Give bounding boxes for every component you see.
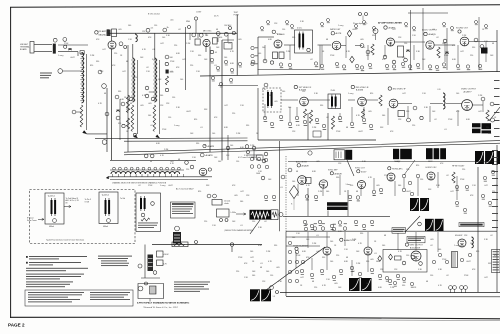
connector speaker jack pair 2	[460, 286, 468, 293]
svg-text:CONV: CONV	[196, 12, 202, 14]
svg-text:.005: .005	[368, 111, 372, 113]
resistor R63	[379, 95, 382, 106]
resistor R52	[437, 47, 440, 58]
wire x111 vertical	[111, 37, 113, 42]
terminal af a	[383, 55, 387, 59]
wire sound drop 7	[444, 42, 446, 62]
wire volume stem	[375, 34, 377, 41]
tube V11 3rd video if	[389, 99, 398, 108]
capacitor C30	[207, 194, 211, 198]
wire sound link2	[318, 44, 332, 46]
tube label circle V1	[95, 30, 107, 34]
svg-text:25-80: 25-80	[331, 90, 336, 92]
svg-text:.01: .01	[228, 43, 231, 45]
terminal ratio b	[366, 50, 370, 54]
svg-text:1 meg: 1 meg	[160, 185, 165, 187]
capacitor C50	[406, 50, 410, 52]
svg-text:2.2M: 2.2M	[186, 43, 191, 45]
note alt tuner caption	[138, 223, 158, 229]
coil L1 top box	[80, 51, 84, 54]
svg-text:.02: .02	[490, 235, 493, 237]
wire faint lower right	[250, 319, 500, 320]
svg-text:68: 68	[216, 29, 218, 31]
inductor L30 right	[472, 237, 474, 248]
terminal agc a	[281, 175, 285, 179]
wire ao link	[435, 44, 456, 46]
boundary ai resistance label	[459, 223, 484, 227]
component yoke photo block B	[426, 148, 446, 159]
testpoint TP3	[378, 256, 382, 262]
svg-text:A 6CZ5GW: A 6CZ5GW	[410, 246, 420, 249]
wire vif drop 2	[296, 107, 298, 116]
terminal row controls top of big box	[304, 223, 347, 231]
svg-text:270K: 270K	[296, 255, 301, 257]
svg-text:OSC ADJ: OSC ADJ	[224, 24, 231, 27]
note paragraph 1	[29, 256, 87, 259]
svg-text:VERT OUTPUT: VERT OUTPUT	[410, 245, 424, 247]
terminal chain b	[153, 271, 157, 275]
svg-text:.005: .005	[274, 101, 278, 103]
wire mixer drop 0	[189, 33, 191, 40]
svg-text:270K: 270K	[64, 43, 69, 45]
wire bigbox top	[286, 230, 497, 232]
terminal row sound section bypass capacitors	[279, 62, 482, 71]
wire bigbox drop 3	[367, 232, 369, 247]
svg-text:.01: .01	[268, 95, 271, 97]
svg-text:100: 100	[266, 271, 269, 273]
capacitor C1	[53, 38, 57, 42]
svg-text:100: 100	[224, 57, 227, 59]
terminal sound c	[270, 61, 273, 64]
graph response curve C2 edge	[497, 151, 500, 164]
svg-text:4.5: 4.5	[151, 28, 154, 30]
terminal agc b	[288, 168, 292, 172]
inductor L20 peaking	[443, 93, 445, 109]
tube heater pad	[102, 84, 107, 89]
wire mixer drop 2	[205, 33, 207, 36]
svg-text:330: 330	[366, 261, 369, 263]
tube V21 audio out right	[458, 239, 466, 247]
note paragraph 4	[26, 274, 84, 280]
svg-text:.047: .047	[160, 43, 164, 45]
wire so link	[469, 41, 497, 43]
svg-text:1.5mg: 1.5mg	[318, 184, 323, 186]
svg-text:PAGE 2: PAGE 2	[8, 323, 25, 328]
svg-text:A 6AT8: A 6AT8	[206, 154, 214, 157]
wire vif drop 3	[339, 113, 341, 117]
svg-text:To Vid: To Vid	[120, 198, 125, 200]
svg-text:560: 560	[258, 53, 261, 55]
terminal pointer origin	[491, 118, 495, 122]
svg-text:2.2M: 2.2M	[390, 287, 395, 289]
inductor L12 choke box	[212, 200, 222, 206]
svg-text:100: 100	[366, 283, 369, 285]
wire c35 down	[176, 244, 178, 245]
terminal osc pad2	[224, 32, 228, 36]
tube V17 horiz osc	[427, 172, 435, 180]
testpoint TP5 large diamond	[289, 186, 298, 199]
capacitor trimmer box	[224, 43, 232, 50]
svg-text:560: 560	[128, 25, 131, 27]
capacitor C17 blob	[166, 70, 169, 74]
tube V18 noise blanker	[323, 247, 331, 255]
inductor L3 rf coil ladder upper	[131, 58, 135, 102]
svg-text:SYNC SEP: SYNC SEP	[328, 169, 338, 171]
svg-text:A 6AU6: A 6AU6	[277, 33, 285, 36]
tube label circle V6	[384, 26, 387, 29]
svg-text:560: 560	[398, 185, 401, 187]
wire ratio link	[341, 45, 346, 47]
testpoint TP1 diamond	[347, 30, 351, 36]
boundary alternate tuner box	[136, 193, 161, 232]
svg-text:A 6AU8: A 6AU8	[302, 164, 310, 167]
capacitor C16	[165, 62, 168, 65]
note alternate ant text	[40, 73, 52, 79]
svg-text:330: 330	[196, 143, 199, 145]
svg-text:.005: .005	[140, 105, 144, 107]
terminal cluster big box left	[288, 241, 304, 282]
wire vif drop 0	[264, 104, 266, 118]
testpoint TP5 stem	[293, 199, 295, 211]
svg-text:A 12BY7: A 12BY7	[464, 90, 473, 93]
wire bigbox drop 0	[307, 232, 309, 248]
svg-text:560: 560	[282, 91, 285, 93]
svg-text:820: 820	[198, 191, 201, 193]
wire osc drop x210	[209, 47, 211, 153]
svg-text:220: 220	[462, 169, 465, 171]
terminal deflection tap	[230, 243, 233, 246]
wire sync v x308	[307, 188, 309, 216]
svg-text:.047: .047	[122, 71, 126, 73]
wire bottom bus y248	[152, 244, 262, 246]
svg-text:VIDEO OUTPUT: VIDEO OUTPUT	[461, 89, 477, 91]
terminal V1 plate	[124, 46, 127, 49]
tube label circle V18	[295, 247, 298, 250]
terminal osc pad3	[232, 31, 235, 34]
wire vif bus y140	[258, 139, 376, 141]
wire sound return bottom	[258, 69, 321, 71]
svg-text:100: 100	[262, 47, 265, 49]
terminal x248 b	[246, 150, 249, 153]
svg-text:.02: .02	[434, 119, 437, 121]
svg-text:AC Tuned Coil 6BQ7: AC Tuned Coil 6BQ7	[176, 187, 194, 190]
wire topright vert x479	[478, 17, 480, 70]
testpoint TP2 diamond	[350, 56, 354, 62]
terminal coil tap L4	[151, 97, 155, 101]
tube label circle V14	[330, 172, 333, 175]
wire pointer to crt	[489, 107, 500, 121]
terminal ratio a	[360, 44, 364, 48]
svg-text:4.5mc: 4.5mc	[297, 28, 302, 30]
svg-text:100: 100	[288, 107, 291, 109]
svg-text:68: 68	[312, 281, 314, 283]
border left edge	[10, 7, 12, 318]
wire L3 core	[136, 60, 138, 134]
terminal vif r c	[420, 116, 423, 119]
svg-text:560: 560	[218, 161, 221, 163]
terminal T2 bottom	[107, 219, 111, 223]
terminal sound b	[251, 60, 255, 64]
terminal l25 right	[279, 213, 283, 217]
tube label circle V4	[272, 30, 280, 35]
svg-text:.005: .005	[276, 267, 280, 269]
terminal column sound left edge	[251, 46, 258, 65]
terminal L1 tap	[72, 110, 76, 114]
wire sync drop 7	[417, 178, 419, 196]
terminal L4 mid tap2	[145, 94, 149, 98]
terminal vif r b	[413, 106, 417, 110]
svg-text:2.2M: 2.2M	[266, 251, 271, 253]
svg-text:330: 330	[336, 177, 339, 179]
wire vif drop 5	[363, 107, 365, 118]
svg-text:220: 220	[486, 127, 489, 129]
svg-text:.01: .01	[200, 127, 203, 129]
svg-text:.01: .01	[222, 151, 225, 153]
svg-text:BOARD: BOARD	[20, 48, 27, 51]
svg-text:150: 150	[420, 179, 423, 181]
wire topright vert x447	[446, 28, 448, 70]
svg-text:150: 150	[154, 25, 157, 27]
terminal selector out b	[190, 165, 194, 169]
svg-text:330: 330	[402, 285, 405, 287]
svg-text:.0047: .0047	[466, 261, 471, 263]
tube V20 vertical output	[411, 251, 421, 261]
capacitor C35 electrolytic body	[173, 232, 181, 244]
tube V16 horiz afc	[387, 173, 395, 181]
svg-text:220: 220	[412, 125, 415, 127]
svg-text:.01: .01	[260, 263, 263, 265]
svg-text:.047: .047	[484, 277, 488, 279]
terminal col d	[262, 159, 266, 163]
transformer T3 alt windings	[140, 196, 146, 211]
tube V14 sync separator	[319, 180, 327, 188]
svg-text:330: 330	[118, 91, 121, 93]
svg-text:SYNC OUT: SYNC OUT	[355, 167, 366, 169]
svg-text:AGC & Pin 1, 28: AGC & Pin 1, 28	[66, 199, 79, 202]
transformer T6 dashed	[263, 88, 281, 112]
svg-text:A 6BU8: A 6BU8	[335, 172, 343, 175]
svg-text:.005: .005	[376, 185, 380, 187]
svg-text:.047: .047	[460, 51, 464, 53]
transformer T8 vert output	[452, 252, 458, 268]
svg-text:SOUND OUT: SOUND OUT	[456, 28, 469, 30]
graph waveform block B	[425, 219, 444, 231]
note paragraph 5	[26, 281, 73, 287]
wire sound return right	[319, 45, 321, 70]
wire vo link	[473, 104, 484, 106]
svg-text:1 meg: 1 meg	[58, 55, 63, 57]
component yoke photo block A	[393, 149, 412, 159]
svg-text:270K: 270K	[444, 55, 449, 57]
table rows resistance check	[172, 206, 193, 214]
tube V15 sync output	[358, 181, 366, 189]
wire bus left join a	[95, 137, 248, 140]
svg-text:AUDIO OUTPUT: AUDIO OUTPUT	[422, 29, 438, 32]
terminal col e	[261, 176, 265, 180]
wire vif link1	[281, 99, 298, 101]
label column right margin upper	[494, 80, 500, 137]
svg-text:.02: .02	[178, 29, 181, 31]
resistor R20 alt	[141, 218, 150, 221]
svg-text:220: 220	[190, 65, 193, 67]
tube V9 1st video if	[300, 97, 309, 106]
terminal t6 top	[264, 83, 268, 87]
svg-text:.0047: .0047	[406, 191, 411, 193]
wire sound vertical x258	[257, 37, 259, 75]
wire sync drop 5	[394, 181, 396, 196]
svg-text:©Howard W. Sams & Co., Inc. 19: ©Howard W. Sams & Co., Inc. 1957	[143, 306, 179, 309]
svg-text:.01: .01	[170, 71, 173, 73]
terminal if link a	[115, 95, 119, 99]
wire L1 bottom drop	[87, 133, 107, 135]
wire vertical x279	[279, 141, 281, 231]
svg-text:.01: .01	[152, 49, 155, 51]
svg-text:MIX OSC: MIX OSC	[203, 30, 212, 32]
tube V4 sound if	[274, 40, 282, 48]
resistor R7 agc	[126, 95, 129, 113]
wire sound drop 2	[321, 45, 323, 64]
resistor R22 box	[172, 242, 188, 247]
svg-text:2.2M: 2.2M	[356, 263, 361, 265]
wire topright vert x423	[422, 8, 424, 70]
svg-text:100: 100	[180, 79, 183, 81]
svg-text:.01: .01	[444, 129, 447, 131]
wire meter pointer	[347, 160, 354, 176]
tube V5 ratio detector	[332, 41, 341, 50]
svg-text:.047: .047	[102, 49, 106, 51]
svg-text:.047: .047	[478, 111, 482, 113]
wire antenna lead top	[34, 43, 52, 45]
svg-text:.0047: .0047	[70, 57, 75, 59]
graph waveform block A	[410, 198, 429, 211]
wire sound drop 1	[289, 45, 291, 60]
svg-text:2.2M: 2.2M	[126, 109, 131, 111]
svg-text:.005: .005	[360, 39, 364, 41]
svg-text:560: 560	[240, 201, 243, 203]
terminal coil junction	[58, 69, 63, 74]
wire junction to coil	[63, 70, 83, 72]
terminal if link c	[116, 116, 120, 120]
terminal chain a	[138, 264, 142, 268]
svg-text:330: 330	[118, 123, 121, 125]
svg-text:RATIO DET: RATIO DET	[330, 28, 341, 31]
terminal rows big box center	[300, 266, 400, 285]
svg-text:2.2M: 2.2M	[312, 243, 317, 245]
svg-text:150: 150	[406, 255, 409, 257]
component video peak label box	[392, 228, 406, 234]
svg-text:45.75: 45.75	[214, 16, 219, 18]
component hatched box in loop	[150, 286, 157, 294]
svg-text:560: 560	[148, 115, 151, 117]
arrow T1 out	[64, 205, 71, 207]
tube V7 audio output	[426, 41, 434, 49]
terminal L13 a	[220, 219, 223, 222]
tuner shield block B	[112, 29, 117, 37]
resistor R45	[371, 44, 374, 55]
component small box x258	[257, 155, 264, 160]
svg-text:220: 220	[236, 271, 239, 273]
svg-text:68: 68	[178, 159, 180, 161]
svg-text:220: 220	[134, 77, 137, 79]
svg-text:100: 100	[292, 237, 295, 239]
svg-text:220: 220	[336, 255, 339, 257]
wire L2 to bus	[135, 33, 137, 35]
resistor R31 box	[157, 251, 164, 257]
svg-text:HF SET 6CM7: HF SET 6CM7	[452, 166, 464, 168]
svg-text:2.2M: 2.2M	[478, 95, 483, 97]
svg-text:.047: .047	[402, 93, 406, 95]
capacitor C3	[68, 49, 72, 51]
svg-text:220: 220	[402, 57, 405, 59]
switch S1 channel selector contacts	[113, 167, 181, 170]
svg-text:.005: .005	[118, 29, 122, 31]
svg-text:220: 220	[232, 113, 235, 115]
svg-text:270K: 270K	[336, 131, 341, 133]
wire topright vert x410	[410, 10, 412, 70]
terminal cluster horiz afc	[402, 174, 420, 196]
wire sync v x328	[327, 211, 329, 217]
wire sound bus y75	[200, 72, 500, 77]
terminal sel bias	[144, 154, 148, 158]
wire bb h y246	[286, 245, 320, 247]
tube V1 RF amplifier	[108, 41, 116, 49]
terminal grid cluster a	[165, 55, 169, 59]
wire vif drop 4	[351, 107, 353, 122]
boundary tuner transformers dashed box	[30, 190, 136, 244]
wire osc drop x222	[221, 40, 223, 161]
note box col2	[90, 292, 130, 300]
svg-text:100: 100	[250, 251, 253, 253]
svg-text:820: 820	[90, 65, 93, 67]
capacitor C20	[116, 110, 120, 112]
wire sound drop 4	[367, 45, 369, 60]
svg-text:560: 560	[366, 55, 369, 57]
svg-text:270K: 270K	[330, 55, 335, 57]
wire chain bottom	[141, 277, 160, 279]
svg-text:.01: .01	[352, 271, 355, 273]
wire sync drop 2	[339, 175, 341, 195]
wire osc link2	[222, 39, 234, 41]
wire antenna lead bottom	[34, 51, 52, 53]
note paragraph 3	[26, 268, 88, 271]
svg-text:+140V: +140V	[163, 254, 169, 256]
svg-text:330: 330	[472, 47, 475, 49]
wire if bus lower	[124, 143, 500, 155]
capacitor C35 top	[175, 226, 180, 231]
wire bigbox drop 9	[351, 260, 353, 276]
tube V12 video output	[462, 100, 473, 111]
wire vif drop 9	[457, 110, 459, 126]
terminal cluster video if decoupling	[263, 115, 373, 130]
arrow L4 wiper	[156, 135, 160, 138]
svg-text:L20: L20	[438, 89, 441, 91]
capacitor osc t1	[194, 17, 197, 20]
wire rf top	[107, 29, 109, 33]
resistor R66	[486, 110, 489, 121]
tube V10 2nd video if	[358, 97, 367, 106]
terminal af b	[392, 60, 396, 64]
terminal sound a	[263, 59, 267, 63]
svg-text:330: 330	[246, 125, 249, 127]
wire test point stub	[236, 15, 238, 76]
wire L1 tap	[76, 111, 82, 113]
tube label circle V5	[331, 32, 334, 35]
terminal selector out a	[185, 161, 189, 165]
wire L3 top	[132, 44, 134, 58]
connector speaker jack pair 1	[449, 286, 457, 293]
svg-text:.005: .005	[370, 259, 374, 261]
wire sync drop 6	[403, 178, 405, 188]
